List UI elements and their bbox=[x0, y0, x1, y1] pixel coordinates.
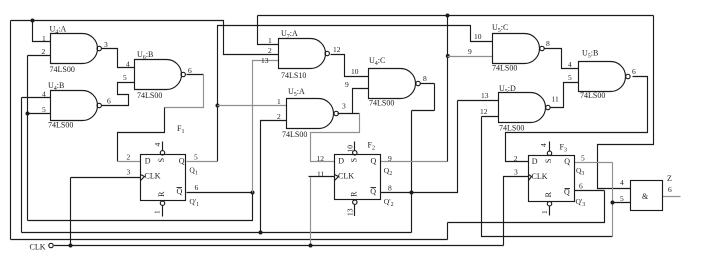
svg-text:5: 5 bbox=[194, 153, 198, 162]
overbar for F3 Qbar bbox=[565, 188, 571, 190]
svg-text:6: 6 bbox=[107, 97, 111, 106]
svg-text:5: 5 bbox=[123, 73, 127, 82]
wire: U4:A output 3 to U6:B pin 4 bbox=[102, 49, 135, 68]
nand U5:D bbox=[499, 93, 546, 123]
svg-text:3: 3 bbox=[514, 168, 518, 177]
wire: F2 Q output (Q2) to vertical riser bbox=[381, 161, 448, 163]
wire: F3 Q output (Q3) to AND pin 5 riser bbox=[575, 162, 613, 164]
svg-text:R: R bbox=[544, 191, 553, 197]
wire: clock bus bbox=[54, 245, 504, 247]
wire: U4:B output 6 to U6:B pin 5 bbox=[102, 83, 135, 106]
svg-text:9: 9 bbox=[345, 80, 349, 89]
flip-flop F3 clock wedge bbox=[529, 175, 532, 181]
node: junction Q3 at AND pin 5 bbox=[611, 201, 615, 205]
svg-text:10: 10 bbox=[346, 145, 355, 153]
flip-flop F2 S preset stub bbox=[353, 151, 357, 155]
svg-text:2: 2 bbox=[277, 112, 281, 121]
wire: U4:B pin 4 from Qbar2 feedback line bbox=[22, 98, 51, 233]
wire: Q1 riser (W_a) from F1 Q up to U5:C pin 10 bbox=[218, 26, 493, 162]
wire: U7:A pin 13 from Qbar1 junction bbox=[253, 61, 279, 193]
svg-text:Q: Q bbox=[177, 187, 183, 196]
flip-flop F3 S preset stub bbox=[547, 151, 551, 155]
wire: F2 CLK from clock bus bbox=[309, 176, 335, 178]
svg-text:3: 3 bbox=[104, 40, 108, 49]
wire: U4:B pin 5 from Qbar1 riser bbox=[28, 113, 51, 115]
svg-text:3: 3 bbox=[127, 168, 131, 177]
svg-text:1: 1 bbox=[277, 97, 281, 106]
wire: Qbar3 feedback lower segment to left border riser bbox=[11, 21, 448, 240]
svg-text:74LS00: 74LS00 bbox=[580, 91, 605, 100]
node: junction on Q1 riser for U5:A pin 1 bbox=[216, 104, 220, 108]
wire: U5:D output 11 to U5:B pin 5 bbox=[551, 83, 579, 108]
svg-text:74LS00: 74LS00 bbox=[499, 124, 524, 133]
wire: Qbar2 node vertical and U4:C output 8 route bbox=[412, 84, 435, 233]
wire: Qbar3 feedback upper segment to U5:D area, from F3 Qbar bbox=[448, 191, 605, 223]
svg-text:6: 6 bbox=[195, 183, 199, 192]
svg-text:2: 2 bbox=[514, 154, 518, 163]
wire: U5:C pin 9 from Q2 riser bbox=[448, 56, 493, 58]
flip-flop F2 R clear stub bbox=[353, 200, 357, 204]
svg-text:2: 2 bbox=[127, 153, 131, 162]
flip-flop F1 S preset stub bbox=[160, 151, 164, 155]
svg-text:13: 13 bbox=[481, 91, 489, 100]
wire: U5:B output 6 to F3 D input bbox=[506, 77, 648, 162]
svg-text:S: S bbox=[544, 159, 553, 163]
nand U4:A bbox=[51, 34, 98, 64]
svg-text:6: 6 bbox=[579, 181, 583, 190]
nand U5:B bbox=[579, 62, 626, 92]
svg-text:6: 6 bbox=[668, 185, 672, 194]
node: junction on Qbar2 line for U5:A.2 bbox=[259, 231, 263, 235]
nand U6:B bbox=[135, 60, 182, 90]
wire: U5:A output 3 to U4:C pin 9 and F2 D bbox=[338, 89, 369, 114]
wire: U5:A output to F2 D input bbox=[311, 114, 360, 162]
svg-text:D: D bbox=[532, 157, 538, 166]
wire: U5:A pin 2 tap from Qbar2 line bbox=[261, 121, 287, 233]
wire: AND gate output Z bbox=[663, 196, 681, 198]
svg-text:13: 13 bbox=[261, 56, 269, 65]
svg-text:8: 8 bbox=[423, 74, 427, 83]
svg-text:12: 12 bbox=[317, 154, 325, 163]
node: junction Qbar1 bbox=[251, 191, 255, 195]
flip-flop F2 box bbox=[335, 155, 381, 200]
wire: U5:A pin 1 from Q1 riser bbox=[218, 105, 287, 107]
svg-text:5: 5 bbox=[620, 194, 624, 203]
terminal: CLK input circle bbox=[49, 243, 53, 247]
svg-text:4: 4 bbox=[42, 90, 46, 99]
nand U7:A (74LS10 3-input) bbox=[279, 39, 326, 69]
and gate U (IEC) output Z bbox=[631, 181, 663, 211]
overbar for F1 Qbar bbox=[177, 187, 183, 189]
svg-text:4: 4 bbox=[568, 60, 572, 69]
node: junction clock bus F2 bbox=[309, 244, 313, 248]
svg-text:8: 8 bbox=[388, 184, 392, 193]
svg-text:R: R bbox=[157, 191, 166, 197]
overbar for F2 Qbar bbox=[371, 187, 377, 189]
svg-text:CLK: CLK bbox=[145, 171, 161, 180]
wire: Q2 riser up to rail y15 bbox=[447, 16, 449, 162]
svg-text:12: 12 bbox=[480, 107, 488, 116]
svg-text:CLK: CLK bbox=[338, 171, 354, 180]
flip-flop F3 R clear stub bbox=[547, 202, 551, 206]
flip-flop F1 box bbox=[141, 155, 186, 201]
wire: U4:A pin 1 from top rail bbox=[33, 21, 51, 42]
svg-text:10: 10 bbox=[351, 67, 359, 76]
svg-text:12: 12 bbox=[333, 45, 341, 54]
svg-text:CLK: CLK bbox=[30, 243, 46, 252]
svg-text:1: 1 bbox=[540, 210, 549, 214]
wire: F3 CLK from clock bus bbox=[504, 177, 529, 246]
svg-text:R: R bbox=[349, 191, 358, 197]
node: junction Qbar2 bbox=[410, 191, 414, 195]
svg-text:Q: Q bbox=[370, 187, 376, 196]
svg-text:74LS00: 74LS00 bbox=[48, 121, 73, 130]
flip-flop F3 box bbox=[529, 156, 575, 202]
svg-text:1: 1 bbox=[153, 210, 162, 214]
wire: U7:A output 12 to U4:C pin 10 bbox=[331, 55, 369, 77]
svg-text:2: 2 bbox=[268, 46, 272, 55]
svg-text:8: 8 bbox=[546, 39, 550, 48]
svg-text:1: 1 bbox=[42, 34, 46, 43]
wire: F1 Q output bbox=[187, 161, 218, 163]
svg-text:74LS00: 74LS00 bbox=[50, 65, 75, 74]
flip-flop F1 clock wedge bbox=[141, 175, 145, 181]
svg-text:Q: Q bbox=[371, 156, 377, 165]
svg-text:74LS10: 74LS10 bbox=[281, 71, 306, 80]
svg-text:5: 5 bbox=[581, 154, 585, 163]
wire: U6:B output 6 to F1 D input bbox=[187, 74, 204, 76]
node: junction Q2 riser at rail bbox=[446, 14, 450, 18]
wire: feedback line (Qbar2 fanout to left) bbox=[22, 232, 412, 234]
svg-text:5: 5 bbox=[568, 73, 572, 82]
svg-text:Q: Q bbox=[564, 157, 570, 166]
svg-text:2: 2 bbox=[42, 47, 46, 56]
wire: AND gate pin 5 from Q3 bbox=[613, 202, 631, 204]
node: junction on top rail feeding U4:A pin 1 bbox=[31, 19, 35, 23]
wire: U5:C output 8 to U5:B pin 4 bbox=[545, 49, 579, 69]
svg-text:Q: Q bbox=[179, 156, 185, 165]
svg-text:13: 13 bbox=[346, 208, 355, 216]
svg-text:10: 10 bbox=[474, 32, 482, 41]
node: junction at U4:B pin 5 bbox=[26, 112, 30, 116]
svg-text:3: 3 bbox=[342, 102, 346, 111]
svg-text:4: 4 bbox=[539, 143, 548, 147]
nand U4:C bbox=[369, 69, 416, 99]
svg-text:74LS00: 74LS00 bbox=[137, 91, 162, 100]
wire: F2 Qbar output to junction bbox=[381, 192, 412, 194]
svg-text:11: 11 bbox=[317, 170, 324, 179]
svg-text:6: 6 bbox=[632, 67, 636, 76]
wire: F1 CLK from clock bus bbox=[71, 178, 141, 246]
svg-text:4: 4 bbox=[153, 143, 162, 147]
svg-text:4: 4 bbox=[126, 60, 130, 69]
svg-text:74LS00: 74LS00 bbox=[282, 130, 307, 139]
svg-text:D: D bbox=[338, 157, 344, 166]
svg-text:9: 9 bbox=[388, 154, 392, 163]
wire: U5:D pin 12 from Q3 feedback line bbox=[482, 117, 613, 237]
svg-text:D: D bbox=[145, 157, 151, 166]
svg-text:&: & bbox=[642, 192, 649, 201]
nand U4:B bbox=[51, 91, 98, 121]
wire: F1 Qbar output to junction bbox=[187, 192, 253, 194]
svg-text:CLK: CLK bbox=[532, 172, 548, 181]
svg-text:Z: Z bbox=[667, 174, 672, 183]
svg-text:74LS00: 74LS00 bbox=[369, 99, 394, 108]
svg-text:1: 1 bbox=[268, 36, 272, 45]
node: junction clock bus F1 bbox=[69, 244, 73, 248]
wire: U4:A pin 2 from Qbar1 feedback riser bbox=[28, 56, 51, 221]
svg-text:6: 6 bbox=[188, 66, 192, 75]
wire: top rail from left border to U7:A pin 2 bbox=[11, 21, 279, 55]
wire: rail y15 from U7:A pin 1 to right side bbox=[258, 16, 654, 45]
svg-text:S: S bbox=[349, 158, 358, 162]
svg-text:S: S bbox=[157, 158, 166, 162]
flip-flop F2 clock wedge bbox=[335, 175, 339, 181]
svg-text:4: 4 bbox=[620, 178, 624, 187]
node: junction Q2 riser at U5:C pin 9 bbox=[446, 54, 450, 58]
wire: U5:D pin 13 from Qbar2 node bbox=[412, 101, 499, 193]
svg-text:74LS00: 74LS00 bbox=[492, 64, 517, 73]
flip-flop F1 R clear stub bbox=[160, 201, 164, 205]
svg-text:9: 9 bbox=[468, 47, 472, 56]
svg-text:5: 5 bbox=[42, 105, 46, 114]
nand U5:A bbox=[287, 99, 334, 129]
wire: rail y15 down right side to AND gate pin 4 bbox=[598, 16, 654, 189]
nand U5:C bbox=[493, 34, 540, 64]
svg-text:11: 11 bbox=[552, 95, 559, 104]
wire: feedback line L1 (Qbar1 to left risers) bbox=[28, 193, 253, 221]
